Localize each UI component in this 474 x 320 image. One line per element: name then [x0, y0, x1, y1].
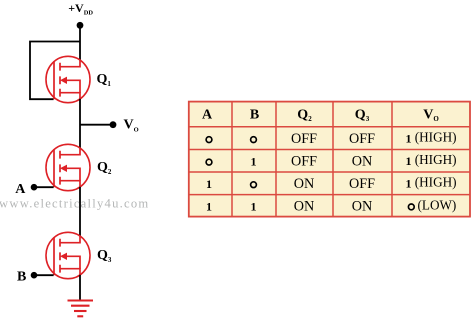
transistor Q1 [46, 56, 90, 102]
svg-text:Q3: Q3 [97, 248, 112, 264]
svg-text:OFF: OFF [349, 131, 375, 147]
svg-text:A: A [15, 182, 26, 197]
truth table header row [202, 107, 439, 123]
svg-text:(LOW): (LOW) [418, 197, 457, 212]
truth table row 3: 1 0 ON OFF 1(HIGH) [206, 175, 457, 192]
svg-text:VO: VO [124, 118, 139, 134]
svg-text:1: 1 [251, 154, 257, 168]
node: Vo terminal dot [110, 121, 117, 128]
wire: Q1 gate-to-drain feedback loop [30, 42, 80, 100]
node: +VDD terminal dot [77, 22, 84, 29]
wire: output branch to Vo [80, 124, 112, 126]
svg-text:ON: ON [294, 176, 315, 192]
wire: +VDD to Q1 drain [79, 25, 81, 61]
svg-text:ON: ON [352, 199, 373, 215]
wire: Q2 source to Q3 drain [79, 187, 81, 236]
node: input B terminal dot [31, 272, 38, 279]
transistor Q3 [46, 232, 90, 278]
transistor Q2 [46, 144, 90, 190]
truth table frame [189, 102, 470, 217]
svg-text:Q1: Q1 [97, 72, 112, 88]
wire: Q1 source to Q2 drain [79, 99, 81, 148]
svg-text:1: 1 [251, 200, 257, 214]
svg-text:1 (HIGH): 1 (HIGH) [405, 175, 456, 191]
svg-text:Q2: Q2 [97, 160, 112, 176]
truth table row 1: 0 0 OFF OFF 1(HIGH) [206, 130, 456, 147]
svg-text:OFF: OFF [291, 131, 317, 147]
svg-text:1: 1 [206, 177, 212, 191]
svg-text:www.electrically4u.com: www.electrically4u.com [0, 196, 149, 210]
svg-text:1 (HIGH): 1 (HIGH) [405, 152, 456, 168]
wire: input A lead to Q2 gate [34, 186, 54, 188]
wire: Q3 source to ground [79, 275, 81, 301]
truth table row 2: 0 1 OFF ON 1(HIGH) [206, 152, 456, 169]
svg-text:ON: ON [294, 199, 315, 215]
svg-text:B: B [17, 270, 26, 285]
svg-text:ON: ON [352, 153, 373, 169]
svg-text:1: 1 [206, 200, 212, 214]
svg-text:+VDD: +VDD [68, 1, 93, 17]
ground [68, 301, 94, 317]
svg-text:B: B [250, 107, 259, 122]
svg-text:OFF: OFF [349, 176, 375, 192]
node: input A terminal dot [31, 184, 38, 191]
svg-text:1 (HIGH): 1 (HIGH) [405, 130, 456, 146]
wire: input B lead to Q3 gate [34, 274, 54, 276]
svg-text:A: A [202, 107, 213, 122]
svg-text:OFF: OFF [291, 153, 317, 169]
truth table row 4: 1 1 ON ON 0(LOW) [206, 197, 456, 214]
